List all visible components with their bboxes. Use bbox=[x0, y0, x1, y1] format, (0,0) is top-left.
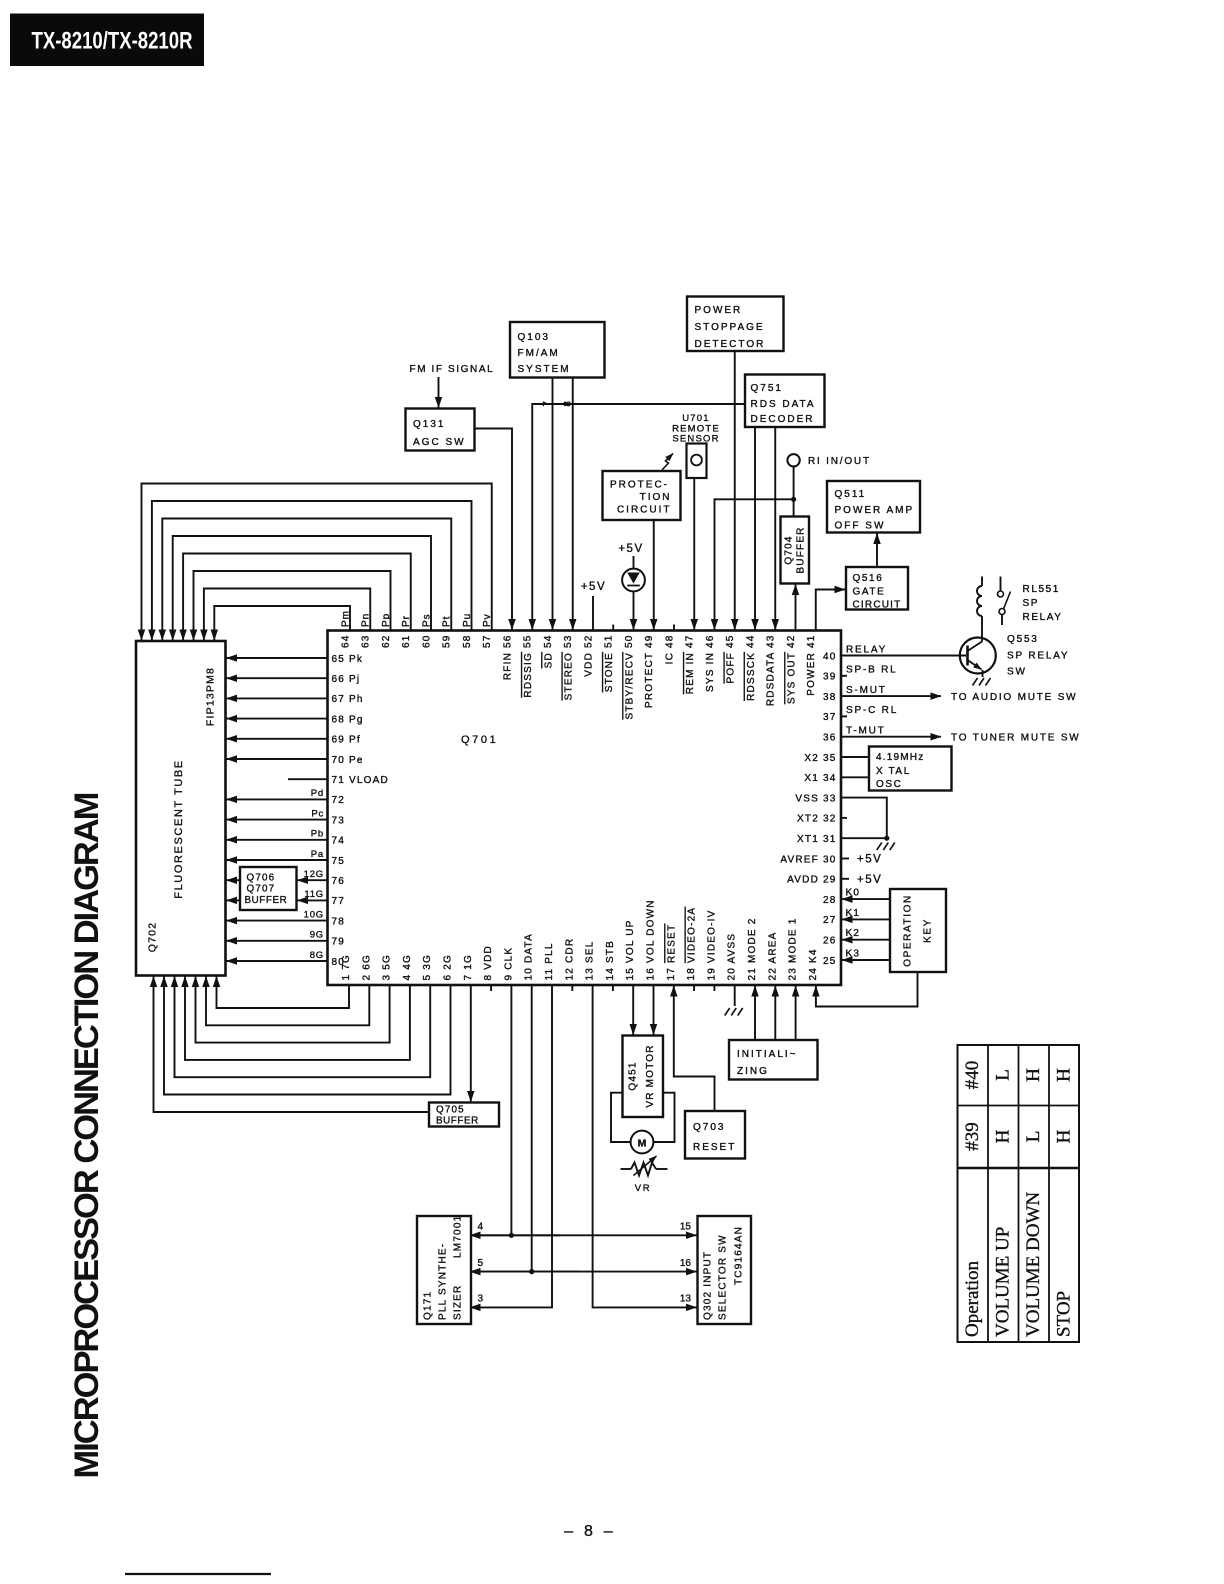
wire pin 30 AVREF +5V stub bbox=[841, 858, 849, 860]
IC pin 52 label VDD bbox=[583, 635, 594, 677]
node RI IN/OUT terminal bbox=[787, 454, 799, 466]
IC pin 26 number bbox=[823, 936, 837, 947]
svg-text:8G: 8G bbox=[310, 950, 324, 961]
node label 10G (pin 78) bbox=[304, 909, 324, 920]
svg-text:16: 16 bbox=[680, 1258, 692, 1269]
label FLUORESCENT TUBE bbox=[173, 759, 185, 899]
svg-text:+5V: +5V bbox=[857, 854, 882, 866]
svg-text:Q705: Q705 bbox=[436, 1105, 465, 1116]
block Q451 labels bbox=[628, 1044, 657, 1107]
table row header VOLUME DOWN bbox=[1023, 1192, 1044, 1337]
svg-text:11 PLL: 11 PLL bbox=[544, 942, 555, 980]
svg-text:Q701: Q701 bbox=[461, 734, 498, 746]
IC pin 22 label AREA bbox=[767, 932, 778, 981]
svg-text:K2: K2 bbox=[846, 928, 861, 939]
power label +5V (STBY LED) bbox=[618, 543, 643, 555]
svg-text:BUFFER: BUFFER bbox=[245, 895, 288, 906]
svg-text:AGC SW: AGC SW bbox=[413, 437, 466, 448]
IC Q701 outline bbox=[328, 631, 842, 986]
wire junction to buffer Q704 bbox=[793, 499, 795, 516]
block Q302 INPUT SELECTOR outline bbox=[698, 1216, 752, 1324]
wire pin 72 to tube bbox=[227, 798, 328, 800]
IC pin 30 label AVREF bbox=[780, 854, 836, 865]
block Q703 RESET outline bbox=[685, 1111, 745, 1159]
svg-text:58: 58 bbox=[462, 635, 473, 649]
Q103 pin number 7 bbox=[542, 400, 553, 407]
ground (Q553 emitter) bbox=[973, 678, 991, 686]
svg-text:Q451: Q451 bbox=[628, 1061, 639, 1090]
IC pin 80 number bbox=[332, 957, 346, 968]
svg-text:Pc: Pc bbox=[311, 808, 324, 819]
svg-text:4.19MHz: 4.19MHz bbox=[876, 752, 924, 763]
wire pin 35 X2 to XTAL bbox=[841, 756, 869, 758]
IC pin 25 number bbox=[823, 956, 837, 967]
transistor Q553 bbox=[960, 638, 996, 678]
svg-text:PROTECT 49: PROTECT 49 bbox=[644, 635, 655, 709]
IC pin 37 number bbox=[823, 712, 837, 723]
IC pin 61 number bbox=[401, 635, 412, 649]
IC pin 54 label SD bbox=[543, 635, 554, 669]
wire U701 to IC pin 47 bbox=[693, 478, 695, 630]
wire pin 69 to tube bbox=[227, 738, 328, 740]
block Q751 RDS DATA DECODER outline bbox=[745, 375, 825, 428]
IC pin 57 number bbox=[482, 635, 493, 649]
svg-text:POWER AMP: POWER AMP bbox=[835, 505, 915, 516]
wire buffer Q706/Q707 to tube (row 11G) bbox=[227, 899, 241, 901]
wire Q751 to IC pin 43 bbox=[774, 427, 776, 630]
wire bus DATA row (Q171 pin5 - Q302 pin16) bbox=[470, 1271, 697, 1273]
svg-text:3: 3 bbox=[478, 1294, 484, 1305]
svg-text:Q702: Q702 bbox=[147, 922, 159, 953]
svg-text:SP-B RL: SP-B RL bbox=[846, 665, 898, 676]
table cell VOLUME DOWN #39 bbox=[1023, 1131, 1044, 1143]
IC pin 73 number bbox=[332, 815, 346, 826]
svg-text:VOLUME DOWN: VOLUME DOWN bbox=[1023, 1192, 1044, 1337]
wire pin 67 to tube bbox=[227, 697, 328, 699]
wire pin 79 to tube bbox=[227, 940, 328, 942]
junction dot (XT1 ground) bbox=[884, 836, 889, 841]
svg-text:37: 37 bbox=[823, 712, 837, 723]
node label TO AUDIO MUTE SW bbox=[951, 692, 1077, 703]
svg-text:1 7G: 1 7G bbox=[341, 954, 352, 980]
svg-text:Operation: Operation bbox=[962, 1261, 983, 1337]
IC pin 28 number bbox=[823, 895, 837, 906]
wire FM IF SIGNAL to Q131 bbox=[438, 377, 440, 408]
sensor U701 outline bbox=[687, 444, 707, 479]
IC pin 10 label DATA bbox=[524, 933, 535, 981]
wire IC pin 15 VOL UP to Q451 bbox=[632, 985, 634, 1035]
Q302 pin number 16 bbox=[680, 1258, 692, 1269]
sensor U701 labels bbox=[672, 413, 720, 445]
relay RL551 coil bbox=[977, 577, 982, 642]
IC pin 51 label STONE bbox=[604, 635, 615, 693]
svg-text:59: 59 bbox=[442, 635, 453, 649]
svg-text:Q703: Q703 bbox=[693, 1122, 725, 1133]
svg-text:10G: 10G bbox=[304, 909, 324, 920]
IC pin 71 label VLOAD bbox=[332, 775, 389, 786]
transistor Q553 labels bbox=[1007, 634, 1069, 678]
node label Ps (pin 60) bbox=[421, 613, 432, 627]
IC pin 42 label SYS OUT bbox=[786, 635, 797, 705]
IC pin 4 label 4G bbox=[402, 954, 413, 980]
svg-text:K1: K1 bbox=[846, 908, 861, 919]
svg-text:K3: K3 bbox=[846, 949, 861, 960]
wire pin 1 7G to tube grid bbox=[217, 977, 350, 1009]
wire Q131 to IC pin 56 bbox=[475, 429, 513, 630]
svg-text:T-MUT: T-MUT bbox=[846, 726, 886, 737]
wire pin 5 3G to tube grid bbox=[175, 977, 431, 1078]
svg-text:39: 39 bbox=[823, 672, 837, 683]
block Q103 FM/AM SYSTEM outline bbox=[510, 322, 605, 378]
svg-text:12 CDR: 12 CDR bbox=[564, 938, 575, 981]
node label K1 (pin 27) bbox=[846, 908, 861, 919]
ground (XT1) bbox=[877, 843, 895, 851]
svg-text:REM IN 47: REM IN 47 bbox=[685, 635, 696, 695]
svg-text:+5V: +5V bbox=[581, 581, 606, 593]
svg-text:63: 63 bbox=[361, 635, 372, 649]
svg-text:POWER: POWER bbox=[695, 305, 743, 316]
svg-text:57: 57 bbox=[482, 635, 493, 649]
wire IC pin 16 VOL DOWN to Q451 bbox=[653, 985, 655, 1035]
wire junction to IC pin 46 bbox=[715, 499, 794, 629]
svg-text:RFIN 56: RFIN 56 bbox=[502, 635, 513, 681]
wire pin 78 to tube bbox=[227, 920, 328, 922]
buffer Q706/Q707 labels bbox=[245, 873, 288, 907]
page number -8- bbox=[564, 1523, 616, 1540]
svg-text:X1 34: X1 34 bbox=[804, 773, 836, 784]
IC pin 63 number bbox=[361, 635, 372, 649]
node label T-MUT (pin 36) bbox=[846, 726, 886, 737]
node label Pa (pin 75) bbox=[311, 849, 324, 860]
block Q451 VR MOTOR outline bbox=[623, 1036, 664, 1118]
IC pin 36 number bbox=[823, 733, 837, 744]
svg-text:13: 13 bbox=[680, 1294, 692, 1305]
wire pin 66 to tube bbox=[227, 677, 328, 679]
IC pin 18 label VIDEO-2A bbox=[686, 907, 697, 981]
svg-text:KEY: KEY bbox=[923, 918, 934, 943]
wire POWER STOPPAGE DETECTOR to IC pin 45 bbox=[734, 351, 736, 630]
wire pin 74 to tube bbox=[227, 839, 328, 841]
node label Pb (pin 74) bbox=[311, 829, 324, 840]
pin 12 stub bbox=[571, 985, 573, 991]
svg-text:Q516: Q516 bbox=[853, 573, 884, 584]
svg-text:66 Pj: 66 Pj bbox=[332, 674, 361, 685]
table row header VOLUME UP bbox=[993, 1227, 1014, 1337]
block Q171 labels bbox=[423, 1215, 464, 1320]
wire pin 7 1G to buffer Q705 bbox=[470, 985, 472, 1102]
IC pin 77 number bbox=[332, 896, 346, 907]
svg-text:40: 40 bbox=[823, 651, 837, 662]
block Q302 labels bbox=[703, 1226, 745, 1320]
IC pin 29 label AVDD bbox=[787, 875, 836, 886]
node label Pu (pin 58) bbox=[462, 613, 473, 627]
IC pin 74 number bbox=[332, 836, 346, 847]
node label Pp (pin 62) bbox=[381, 613, 392, 627]
IC pin 72 number bbox=[332, 795, 346, 806]
node label SP-B RL (pin 39) bbox=[846, 665, 898, 676]
buffer Q704 outline bbox=[781, 517, 810, 584]
svg-text:L: L bbox=[993, 1069, 1014, 1081]
wire PROTECTION CIRCUIT to IC pin 49 bbox=[653, 520, 655, 630]
svg-text:TO TUNER MUTE SW: TO TUNER MUTE SW bbox=[951, 733, 1081, 744]
table cell STOP #40 bbox=[1054, 1068, 1075, 1082]
wire Q516 to Q511 bbox=[876, 534, 878, 568]
wire IC pin 41 to Q516 bbox=[816, 590, 845, 631]
wire OPERATION KEY to IC pin 27 K1 bbox=[842, 918, 890, 920]
svg-text:75: 75 bbox=[332, 856, 346, 867]
svg-text:SELECTOR SW: SELECTOR SW bbox=[718, 1234, 729, 1320]
power label +5V (VDD) bbox=[581, 581, 606, 593]
ground (AVSS) bbox=[725, 1008, 743, 1016]
IC pin 70 label Pe bbox=[332, 755, 364, 766]
svg-text:12G: 12G bbox=[304, 869, 324, 880]
svg-text:8 VDD: 8 VDD bbox=[483, 945, 494, 980]
svg-text:CIRCUIT: CIRCUIT bbox=[617, 505, 672, 516]
block POWER STOPPAGE DETECTOR labels bbox=[695, 305, 766, 350]
wire Q751 to IC pin 44 bbox=[754, 427, 756, 630]
svg-text:GATE: GATE bbox=[853, 587, 886, 598]
svg-text:SYS IN 46: SYS IN 46 bbox=[705, 635, 716, 693]
svg-text:23 MODE 1: 23 MODE 1 bbox=[788, 917, 799, 980]
node label Pm (pin 64) bbox=[340, 610, 351, 627]
block INITIALIZING outline bbox=[729, 1040, 818, 1080]
svg-text:SIZER: SIZER bbox=[453, 1285, 464, 1320]
wire pin 60 Ps to tube grid bbox=[173, 536, 431, 640]
svg-text:2 6G: 2 6G bbox=[361, 954, 372, 980]
svg-text:L: L bbox=[1023, 1131, 1044, 1143]
pin 32 stub bbox=[841, 817, 847, 819]
svg-text:M: M bbox=[638, 1138, 647, 1150]
svg-text:STEREO 53: STEREO 53 bbox=[563, 635, 574, 701]
wire OPERATION KEY to IC pin 25 K3 bbox=[842, 959, 890, 961]
svg-text:13 SEL: 13 SEL bbox=[585, 940, 596, 980]
svg-text:79: 79 bbox=[332, 937, 346, 948]
wire IC pin 42 to buffer Q704 bbox=[795, 585, 797, 631]
svg-text:17 RESET: 17 RESET bbox=[666, 924, 677, 981]
svg-text:H: H bbox=[1054, 1068, 1075, 1082]
wire pin 64 Pm to tube grid bbox=[214, 606, 350, 640]
wire Q103 pin8 to IC pin 53 bbox=[572, 378, 574, 630]
wire pin 62 Pp to tube grid bbox=[194, 571, 391, 640]
svg-text:SW: SW bbox=[1007, 667, 1027, 678]
block Q516 labels bbox=[853, 573, 902, 611]
table row header STOP bbox=[1054, 1291, 1075, 1337]
svg-text:U701: U701 bbox=[682, 413, 710, 424]
svg-text:STOP: STOP bbox=[1054, 1291, 1075, 1337]
pin 37 stub bbox=[841, 715, 847, 717]
svg-text:POWER 41: POWER 41 bbox=[806, 635, 817, 696]
wire pin 57 Pv to tube grid bbox=[142, 484, 492, 641]
IC pin 3 label 5G bbox=[382, 954, 393, 980]
relay RL551 labels bbox=[1023, 584, 1063, 623]
svg-text:H: H bbox=[993, 1129, 1014, 1143]
svg-text:RELAY: RELAY bbox=[1023, 612, 1063, 623]
svg-text:LM7001: LM7001 bbox=[453, 1215, 464, 1258]
svg-text:AVREF 30: AVREF 30 bbox=[780, 854, 836, 865]
IC pin 58 number bbox=[462, 635, 473, 649]
svg-text:SD 54: SD 54 bbox=[543, 635, 554, 669]
svg-text:4 4G: 4 4G bbox=[402, 954, 413, 980]
IC pin 14 label STB bbox=[605, 940, 616, 981]
table key operation logic grid bbox=[958, 1045, 1080, 1342]
svg-text:BUFFER: BUFFER bbox=[436, 1116, 479, 1127]
node label Pd (pin 72) bbox=[311, 788, 324, 799]
svg-text:X2 35: X2 35 bbox=[804, 753, 836, 764]
svg-text:RDSDATA 43: RDSDATA 43 bbox=[766, 635, 777, 707]
wire bus CLK row (Q171 pin4 - Q302 pin15) bbox=[470, 1234, 697, 1236]
svg-text:74: 74 bbox=[332, 836, 346, 847]
wire OPERATION KEY to IC pin 24 K4 bbox=[816, 972, 918, 1007]
buffer Q705 labels bbox=[436, 1105, 479, 1127]
wire Q751 to IC pin 55 bbox=[532, 404, 745, 630]
IC pin 1 label 7G bbox=[341, 954, 352, 980]
block Q516 GATE CIRCUIT outline bbox=[846, 567, 908, 610]
IC pin 41 label POWER bbox=[806, 635, 817, 696]
svg-text:RDSSCK 44: RDSSCK 44 bbox=[745, 635, 756, 701]
svg-text:Pb: Pb bbox=[311, 829, 324, 840]
svg-text:IC 48: IC 48 bbox=[664, 635, 675, 665]
svg-text:67 Ph: 67 Ph bbox=[332, 694, 364, 705]
svg-text:H: H bbox=[1054, 1129, 1075, 1143]
IC pin 35 label X2 bbox=[804, 753, 836, 764]
IC pin 75 number bbox=[332, 856, 346, 867]
svg-text:#39: #39 bbox=[962, 1122, 983, 1151]
block Q703 labels bbox=[693, 1122, 736, 1153]
svg-text:TION: TION bbox=[640, 492, 672, 503]
svg-text:36: 36 bbox=[823, 733, 837, 744]
table cell VOLUME DOWN #40 bbox=[1023, 1068, 1044, 1082]
block PROTECTION CIRCUIT outline bbox=[603, 471, 681, 520]
svg-text:STBY/RECV 50: STBY/RECV 50 bbox=[624, 635, 635, 720]
IC pin 40 number bbox=[823, 651, 837, 662]
svg-text:15: 15 bbox=[680, 1222, 692, 1233]
wire pin 80 to tube bbox=[227, 960, 328, 962]
svg-text:SP RELAY: SP RELAY bbox=[1007, 651, 1069, 662]
svg-text:5: 5 bbox=[478, 1258, 484, 1269]
svg-text:3 5G: 3 5G bbox=[382, 954, 393, 980]
page model label TX-8210/TX-8210R bbox=[10, 14, 204, 67]
node label Pc (pin 73) bbox=[311, 808, 324, 819]
IC pin 17 label RESET bbox=[666, 924, 677, 981]
IC pin 69 label Pf bbox=[332, 735, 361, 746]
wire IC pin 13 SEL to Q302 pin 13 bbox=[593, 985, 697, 1307]
svg-text:62: 62 bbox=[381, 635, 392, 649]
svg-text:FIP13PM8: FIP13PM8 bbox=[205, 667, 217, 726]
label VR bbox=[635, 1183, 651, 1194]
svg-text:VDD 52: VDD 52 bbox=[583, 635, 594, 677]
IC pin 20 label AVSS bbox=[727, 933, 738, 981]
wire pin 61 Pr to tube grid bbox=[183, 554, 411, 641]
wire pin 33 VSS to ground net bbox=[841, 798, 887, 839]
svg-text:Pd: Pd bbox=[311, 788, 324, 799]
page title MICROPROCESSOR CONNECTION DIAGRAM bbox=[68, 792, 106, 1479]
node label S-MUT (pin 38) bbox=[846, 685, 887, 696]
wire pin 36 T-MUT to tuner mute bbox=[841, 736, 941, 738]
wire buffer Q706/Q707 to tube (row 12G) bbox=[227, 879, 241, 881]
wire pin 73 to tube bbox=[227, 819, 328, 821]
svg-text:68 Pg: 68 Pg bbox=[332, 714, 364, 725]
svg-text:60: 60 bbox=[421, 635, 432, 649]
svg-text:7 1G: 7 1G bbox=[463, 954, 474, 980]
junction dot bbox=[791, 497, 796, 502]
svg-text:16 VOL DOWN: 16 VOL DOWN bbox=[646, 899, 657, 980]
block Q171 PLL SYNTHESIZER outline bbox=[417, 1216, 471, 1324]
svg-text:PROTEC-: PROTEC- bbox=[610, 480, 669, 491]
svg-text:65 Pk: 65 Pk bbox=[332, 654, 364, 665]
buffer Q704 labels bbox=[784, 526, 807, 573]
IC Q701 reference label bbox=[461, 734, 498, 746]
wire pin 34 X1 to XTAL bbox=[841, 776, 869, 778]
IC pin 38 number bbox=[823, 692, 837, 703]
node label Pv (pin 57) bbox=[482, 613, 493, 627]
block Q751 labels bbox=[751, 383, 816, 425]
table cell STOP #39 bbox=[1054, 1129, 1075, 1143]
svg-text:28: 28 bbox=[823, 895, 837, 906]
wire pin 4 4G to tube grid bbox=[185, 977, 410, 1060]
IC pin 2 label 6G bbox=[361, 954, 372, 980]
pin 14 stub bbox=[612, 985, 614, 991]
wire IC pin 11 PLL to Q171 pin 3 bbox=[470, 985, 552, 1307]
pin 19 stub bbox=[713, 985, 715, 991]
svg-text:22 AREA: 22 AREA bbox=[767, 932, 778, 981]
svg-text:69 Pf: 69 Pf bbox=[332, 735, 361, 746]
svg-text:DECODER: DECODER bbox=[751, 414, 815, 425]
svg-text:SP: SP bbox=[1023, 598, 1040, 609]
node label 11G (pin 77) bbox=[304, 889, 324, 900]
svg-text:STONE 51: STONE 51 bbox=[604, 635, 615, 693]
IC pin 65 label Pk bbox=[332, 654, 364, 665]
node label FM IF SIGNAL bbox=[410, 364, 495, 375]
svg-text:BUFFER: BUFFER bbox=[796, 526, 807, 573]
svg-text:Q511: Q511 bbox=[835, 489, 867, 500]
node label RI IN/OUT bbox=[808, 456, 871, 467]
pin 71 VLOAD stub bbox=[288, 778, 328, 780]
svg-text:61: 61 bbox=[401, 635, 412, 649]
block Q131 labels bbox=[413, 419, 466, 448]
wire IC pin 10 DATA to bus bbox=[529, 985, 534, 1274]
svg-text:+5V: +5V bbox=[857, 874, 882, 886]
svg-text:24 K4: 24 K4 bbox=[808, 948, 819, 980]
node label K0 (pin 28) bbox=[846, 888, 861, 899]
wire IC pin 40 RELAY to Q553 base bbox=[841, 655, 966, 657]
svg-text:6 2G: 6 2G bbox=[443, 954, 454, 980]
IC pin 9 label CLK bbox=[503, 947, 514, 981]
IC pin 24 label K4 bbox=[808, 948, 819, 980]
block Q103 labels bbox=[518, 332, 571, 375]
variable resistor VR bbox=[621, 1156, 668, 1176]
power label +5V (AVDD) bbox=[857, 874, 882, 886]
svg-text:SP-C RL: SP-C RL bbox=[846, 705, 898, 716]
fluorescent tube Q702 outline bbox=[136, 641, 226, 976]
IC pin 67 label Ph bbox=[332, 694, 364, 705]
svg-text:H: H bbox=[1023, 1068, 1044, 1082]
node label TO TUNER MUTE SW bbox=[951, 733, 1081, 744]
svg-text:SYSTEM: SYSTEM bbox=[518, 364, 571, 375]
svg-text:RDSSIG 55: RDSSIG 55 bbox=[523, 635, 534, 698]
svg-text:10 DATA: 10 DATA bbox=[524, 933, 535, 981]
wire +5V to IC pin 52 bbox=[592, 596, 594, 631]
IC pin 50 label STBY/RECV bbox=[624, 635, 635, 720]
block Q131 AGC SW outline bbox=[406, 409, 475, 451]
svg-text:INITIALI~: INITIALI~ bbox=[737, 1049, 798, 1060]
svg-text:77: 77 bbox=[332, 896, 346, 907]
node label K2 (pin 26) bbox=[846, 928, 861, 939]
IC pin 68 label Pg bbox=[332, 714, 364, 725]
svg-text:Q103: Q103 bbox=[518, 332, 550, 343]
wire pin 77 to buffer Q706/Q707 bbox=[298, 899, 328, 901]
block POWER STOPPAGE DETECTOR outline bbox=[687, 297, 784, 352]
IC pin 64 number bbox=[340, 635, 351, 649]
